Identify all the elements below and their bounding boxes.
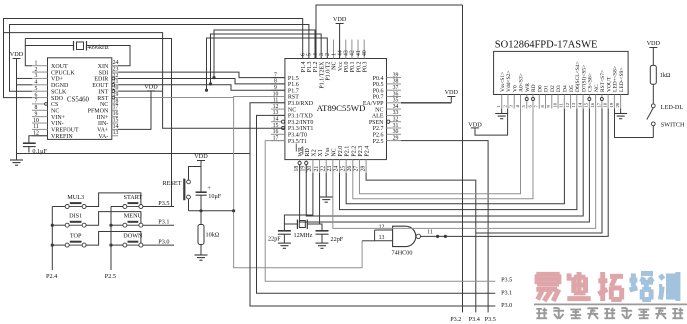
svg-text:44: 44 <box>337 50 343 56</box>
svg-text:Vcc: Vcc <box>338 61 344 71</box>
svg-text:18: 18 <box>294 166 300 172</box>
svg-text:14: 14 <box>577 102 582 107</box>
svg-text:13: 13 <box>571 102 576 107</box>
svg-text:RD: RD <box>531 84 537 92</box>
svg-text:VDD: VDD <box>144 83 158 90</box>
svg-text:VDD: VDD <box>194 153 208 160</box>
svg-text:NC: NC <box>332 62 338 70</box>
svg-text:34: 34 <box>393 104 399 110</box>
svg-text:Vdd<S2>: Vdd<S2> <box>506 71 512 92</box>
svg-text:12: 12 <box>379 224 385 230</box>
svg-text:P0.7: P0.7 <box>373 95 384 101</box>
svg-text:IIN+: IIN+ <box>97 115 109 121</box>
svg-text:15: 15 <box>113 117 119 123</box>
svg-text:3: 3 <box>319 53 325 56</box>
svg-text:22pF: 22pF <box>331 236 344 243</box>
svg-text:P3.4: P3.4 <box>469 316 480 323</box>
svg-text:P3.2/INT0: P3.2/INT0 <box>288 120 314 126</box>
svg-text:5: 5 <box>307 53 313 56</box>
svg-text:EOUT: EOUT <box>92 83 108 89</box>
svg-text:3: 3 <box>35 73 38 79</box>
svg-text:74HC00: 74HC00 <box>392 249 413 256</box>
svg-text:16: 16 <box>590 102 595 107</box>
svg-text:19: 19 <box>300 166 306 172</box>
svg-text:P0.4: P0.4 <box>373 76 384 82</box>
svg-text:VDD: VDD <box>10 51 24 58</box>
svg-text:18: 18 <box>603 102 608 107</box>
svg-text:2: 2 <box>325 53 331 56</box>
svg-text:P3.4/T0: P3.4/T0 <box>288 133 307 139</box>
svg-text:VD+: VD+ <box>51 77 64 83</box>
svg-text:P3.5: P3.5 <box>501 277 512 284</box>
svg-text:P1.5: P1.5 <box>288 76 299 82</box>
svg-text:RD: RD <box>305 148 311 157</box>
svg-text:24: 24 <box>113 60 119 66</box>
svg-text:19: 19 <box>609 102 614 107</box>
svg-text:5: 5 <box>35 86 38 92</box>
svg-text:INT: INT <box>98 89 108 95</box>
svg-text:4: 4 <box>35 80 38 86</box>
svg-text:VDD: VDD <box>333 16 347 23</box>
svg-text:P3.5: P3.5 <box>158 200 169 207</box>
svg-text:P0.2: P0.2 <box>356 62 362 73</box>
svg-text:SDI: SDI <box>99 70 109 76</box>
svg-text:12: 12 <box>565 102 570 107</box>
svg-text:D5: D5 <box>569 85 575 92</box>
svg-text:P3.0: P3.0 <box>501 302 512 309</box>
svg-text:24: 24 <box>334 166 340 172</box>
svg-text:23: 23 <box>327 166 333 172</box>
svg-text:11: 11 <box>559 102 564 107</box>
svg-text:39: 39 <box>393 72 399 78</box>
svg-text:SO12864FPD-17ASWE: SO12864FPD-17ASWE <box>495 40 598 51</box>
svg-text:1kΩ: 1kΩ <box>660 72 671 79</box>
svg-text:CS<S6>: CS<S6> <box>588 73 594 92</box>
svg-text:PFMON: PFMON <box>88 108 109 114</box>
svg-text:Vss: Vss <box>325 147 331 157</box>
svg-text:RST<S7>: RST<S7> <box>600 70 606 92</box>
svg-text:ALE: ALE <box>372 114 384 120</box>
svg-text:P3.0/RXD: P3.0/RXD <box>288 101 314 107</box>
svg-text:SCLK: SCLK <box>51 89 67 95</box>
svg-text:VIN+: VIN+ <box>51 115 66 121</box>
svg-text:6: 6 <box>35 92 38 98</box>
svg-text:D0: D0 <box>537 85 543 92</box>
svg-text:VOUT: VOUT <box>606 76 612 92</box>
svg-text:21: 21 <box>314 166 320 172</box>
svg-text:VREFOUT: VREFOUT <box>51 128 79 134</box>
svg-text:DGND: DGND <box>51 83 69 89</box>
svg-text:23: 23 <box>113 66 119 72</box>
svg-text:10kΩ: 10kΩ <box>206 232 220 239</box>
svg-text:P1.3: P1.3 <box>307 62 313 73</box>
svg-text:D7(SI)<S5>: D7(SI)<S5> <box>580 65 587 92</box>
svg-text:27: 27 <box>354 166 360 172</box>
svg-text:13: 13 <box>113 130 119 136</box>
svg-text:VREFIN: VREFIN <box>51 134 73 140</box>
svg-text:P1.7: P1.7 <box>288 88 299 94</box>
svg-text:MENU: MENU <box>124 213 143 220</box>
svg-text:11: 11 <box>427 230 433 236</box>
svg-text:RESET: RESET <box>163 180 182 187</box>
svg-text:P3.1: P3.1 <box>501 289 512 296</box>
svg-text:40: 40 <box>362 50 368 56</box>
svg-text:P3.3/INT1: P3.3/INT1 <box>288 126 314 132</box>
svg-text:LED-<S9>: LED-<S9> <box>619 67 625 92</box>
svg-text:9: 9 <box>35 111 38 117</box>
svg-text:31: 31 <box>393 123 399 129</box>
svg-text:EA/VPP: EA/VPP <box>363 101 384 107</box>
svg-text:14: 14 <box>273 117 279 123</box>
svg-text:P2.1: P2.1 <box>345 146 351 157</box>
svg-text:11: 11 <box>33 124 39 130</box>
svg-text:10: 10 <box>552 102 557 107</box>
svg-text:CS5460: CS5460 <box>67 97 90 104</box>
svg-text:P1.6: P1.6 <box>288 82 299 88</box>
svg-text:CS: CS <box>51 102 58 108</box>
svg-text:NC: NC <box>594 84 600 92</box>
svg-text:START: START <box>124 194 143 201</box>
svg-text:D4: D4 <box>563 85 569 92</box>
svg-text:17: 17 <box>113 105 119 111</box>
svg-text:8: 8 <box>35 105 38 111</box>
svg-text:1: 1 <box>35 61 38 67</box>
svg-text:TOP: TOP <box>70 233 82 240</box>
svg-text:P0.1: P0.1 <box>350 62 356 73</box>
svg-text:P2.6: P2.6 <box>373 133 384 139</box>
svg-text:WR: WR <box>525 83 531 92</box>
svg-text:P2.0: P2.0 <box>338 146 344 157</box>
svg-text:30: 30 <box>393 129 399 135</box>
svg-text:7: 7 <box>35 99 38 105</box>
svg-text:P3.5: P3.5 <box>485 316 496 323</box>
svg-text:P0.3: P0.3 <box>362 62 368 73</box>
svg-text:P1.0/T2: P1.0/T2 <box>326 62 332 81</box>
svg-text:10μF: 10μF <box>208 193 222 200</box>
svg-text:NC: NC <box>288 107 296 113</box>
svg-text:WR: WR <box>298 147 304 157</box>
svg-text:P1.4: P1.4 <box>301 62 307 73</box>
svg-text:12: 12 <box>273 104 279 110</box>
svg-text:38: 38 <box>393 79 399 85</box>
svg-text:36: 36 <box>393 91 399 97</box>
svg-text:35: 35 <box>393 98 399 104</box>
svg-text:32: 32 <box>393 117 399 123</box>
svg-text:D1: D1 <box>544 85 550 92</box>
svg-text:10: 10 <box>33 118 39 124</box>
svg-text:6: 6 <box>301 53 307 56</box>
svg-text:P1.2: P1.2 <box>313 62 319 73</box>
svg-text:22: 22 <box>320 166 326 172</box>
svg-text:LED+<S8>: LED+<S8> <box>613 66 619 92</box>
svg-text:25: 25 <box>340 166 346 172</box>
svg-text:P3.2: P3.2 <box>450 316 461 323</box>
svg-text:15: 15 <box>584 102 589 107</box>
svg-text:X2: X2 <box>312 149 318 156</box>
svg-text:LED-DL: LED-DL <box>661 104 684 111</box>
svg-text:P3.1/TXD: P3.1/TXD <box>288 114 314 120</box>
svg-text:VA+: VA+ <box>97 128 109 134</box>
svg-text:AT89C55WD: AT89C55WD <box>317 103 366 113</box>
svg-text:17: 17 <box>596 102 601 107</box>
svg-text:26: 26 <box>347 166 353 172</box>
svg-text:12MHz: 12MHz <box>294 232 313 239</box>
svg-text:20: 20 <box>615 102 620 107</box>
svg-text:1: 1 <box>331 53 337 56</box>
svg-text:13: 13 <box>379 235 385 241</box>
svg-text:Vss<S1>: Vss<S1> <box>500 72 506 92</box>
svg-text:P0.5: P0.5 <box>373 82 384 88</box>
svg-text:P2.4: P2.4 <box>46 273 57 280</box>
svg-text:XIN: XIN <box>98 64 109 70</box>
svg-text:33: 33 <box>393 110 399 116</box>
svg-text:IIN-: IIN- <box>98 121 108 127</box>
svg-text:P2.5: P2.5 <box>373 139 384 145</box>
svg-text:P2.7: P2.7 <box>373 126 384 132</box>
svg-text:RST: RST <box>97 96 108 102</box>
svg-text:D6(SCL<S4>: D6(SCL<S4> <box>574 61 581 92</box>
svg-text:P3.1: P3.1 <box>158 219 169 226</box>
svg-text:VDD: VDD <box>445 89 459 96</box>
svg-text:NC: NC <box>100 102 108 108</box>
svg-text:VA-: VA- <box>98 134 108 140</box>
svg-text:MUL3: MUL3 <box>67 194 84 201</box>
svg-text:28: 28 <box>360 166 366 172</box>
svg-text:NC: NC <box>375 107 383 113</box>
svg-text:29: 29 <box>393 135 399 141</box>
svg-text:42: 42 <box>350 50 356 56</box>
svg-text:P2.4: P2.4 <box>365 146 371 157</box>
svg-text:A0<S3>: A0<S3> <box>519 73 525 92</box>
svg-text:16: 16 <box>113 111 119 117</box>
svg-text:DIS1: DIS1 <box>69 213 82 220</box>
svg-text:VDD: VDD <box>647 40 661 47</box>
svg-text:2: 2 <box>35 67 38 73</box>
svg-text:P3.5/T1: P3.5/T1 <box>288 139 307 145</box>
svg-text:14: 14 <box>113 124 119 130</box>
svg-text:NC: NC <box>51 108 59 114</box>
svg-text:+: + <box>207 185 211 192</box>
svg-text:RST: RST <box>288 95 299 101</box>
svg-text:D2: D2 <box>550 85 556 92</box>
svg-text:16: 16 <box>273 129 279 135</box>
svg-text:V0: V0 <box>512 85 518 92</box>
svg-text:P0.6: P0.6 <box>373 88 384 94</box>
svg-text:P0.0: P0.0 <box>344 62 350 73</box>
svg-text:P3.0: P3.0 <box>158 239 169 246</box>
svg-text:DOWN: DOWN <box>123 233 143 240</box>
svg-text:NC: NC <box>331 148 337 156</box>
svg-text:EDIR: EDIR <box>94 77 108 83</box>
svg-text:X1: X1 <box>318 149 324 156</box>
svg-text:PSEN: PSEN <box>369 120 384 126</box>
svg-text:SDO: SDO <box>51 96 64 102</box>
svg-text:VIN-: VIN- <box>51 121 64 127</box>
svg-text:20: 20 <box>307 166 313 172</box>
svg-text:D3: D3 <box>556 85 562 92</box>
svg-text:P2.2: P2.2 <box>351 146 357 157</box>
svg-text:41: 41 <box>356 50 362 56</box>
svg-text:CPUCLK: CPUCLK <box>51 70 75 76</box>
svg-text:XOUT: XOUT <box>51 64 68 70</box>
svg-text:43: 43 <box>344 50 350 56</box>
svg-text:P2.3: P2.3 <box>358 146 364 157</box>
svg-text:SWITCH: SWITCH <box>661 122 685 129</box>
svg-text:P1.1/T2EX: P1.1/T2EX <box>319 61 325 89</box>
svg-text:P2.5: P2.5 <box>105 273 116 280</box>
svg-text:22pF: 22pF <box>268 236 281 243</box>
svg-text:37: 37 <box>393 85 399 91</box>
